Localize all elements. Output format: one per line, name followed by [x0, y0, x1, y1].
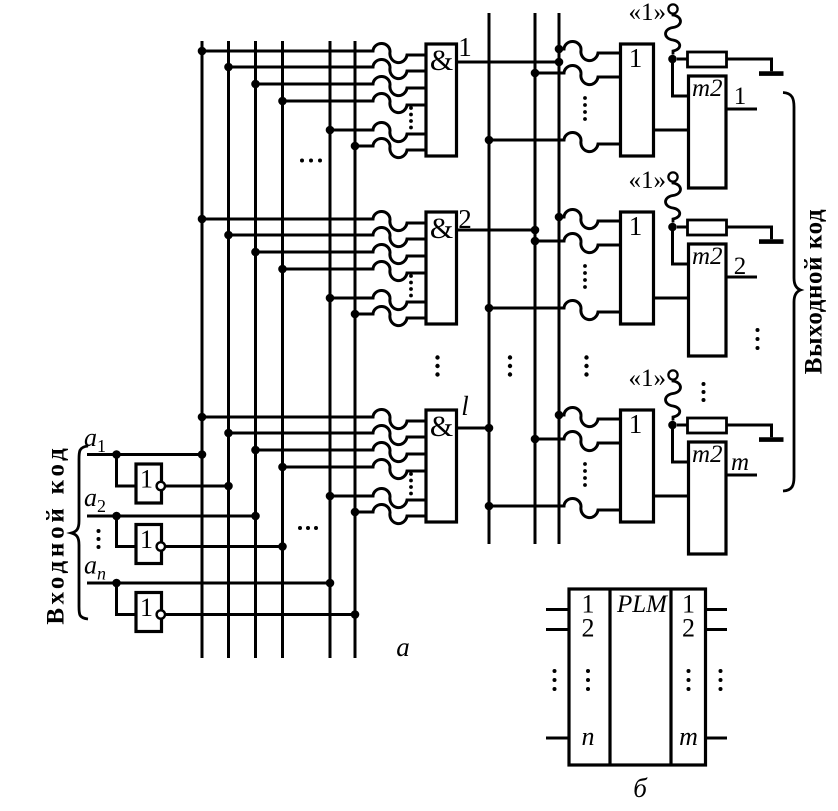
svg-text:&: & — [430, 44, 453, 77]
svg-text:m2: m2 — [692, 243, 723, 270]
svg-text:1: 1 — [734, 83, 747, 110]
svg-text:n: n — [582, 722, 595, 751]
svg-text:2: 2 — [682, 614, 695, 643]
svg-text:1: 1 — [140, 525, 153, 554]
svg-text:m2: m2 — [692, 441, 723, 468]
svg-text:l: l — [461, 391, 469, 421]
svg-text:1: 1 — [140, 593, 153, 622]
svg-text:1: 1 — [140, 465, 153, 494]
svg-text:Входной код: Входной код — [42, 444, 69, 624]
svg-text:а: а — [396, 632, 410, 662]
svg-text:PLM: PLM — [616, 591, 668, 618]
svg-text:«1»: «1» — [629, 0, 667, 26]
svg-text:Выходной код: Выходной код — [801, 209, 828, 374]
svg-text:&: & — [430, 410, 453, 443]
svg-text:1: 1 — [458, 32, 472, 62]
svg-text:m2: m2 — [692, 75, 723, 102]
svg-text:«1»: «1» — [629, 167, 667, 194]
svg-text:1: 1 — [629, 211, 643, 241]
svg-text:б: б — [633, 773, 648, 803]
svg-text:2: 2 — [582, 614, 595, 643]
svg-text:m: m — [679, 722, 698, 751]
svg-text:m: m — [731, 449, 749, 476]
svg-text:1: 1 — [629, 43, 643, 73]
svg-text:&: & — [430, 212, 453, 245]
svg-text:2: 2 — [734, 253, 747, 280]
svg-text:«1»: «1» — [629, 365, 667, 392]
svg-text:1: 1 — [629, 409, 643, 439]
